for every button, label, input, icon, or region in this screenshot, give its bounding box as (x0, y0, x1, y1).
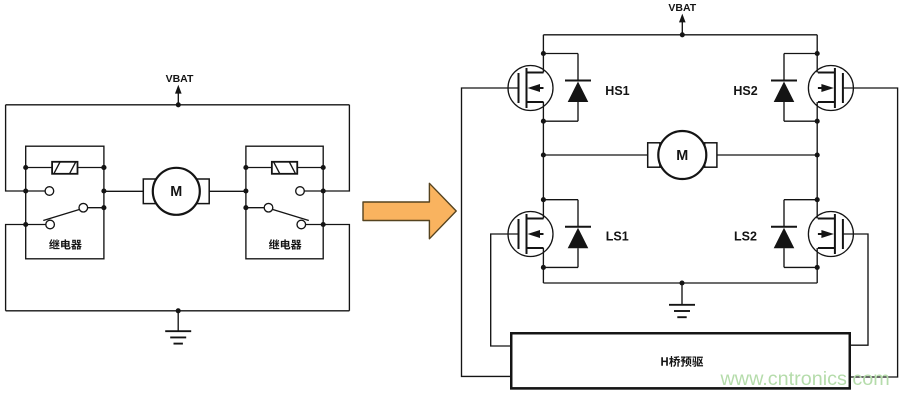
relay K1 NC contact circle (46, 220, 55, 229)
body diode of HS1 (543, 54, 591, 122)
svg-text:VBAT: VBAT (668, 2, 696, 14)
relay K1 common contact circle (79, 203, 88, 212)
svg-text:www.cntronics.com: www.cntronics.com (720, 368, 890, 390)
wire: left-circuit outer right, upper segment (323, 105, 349, 191)
relay K2 common contact stub wire (246, 207, 264, 209)
motor motor M (right circuit) body circle (658, 131, 706, 179)
N-MOSFET HS1 (508, 66, 553, 111)
relay K1 common contact stub wire (88, 207, 104, 209)
block arrow (relay-to-MOSFET transition) (363, 183, 456, 239)
wire: right-circuit top rail (VBAT net) (543, 34, 817, 36)
relay K2 NO contact circle (296, 187, 305, 196)
relay K1 NC contact stub wire (26, 224, 46, 226)
body diode of HS2 (771, 54, 817, 122)
junction dot relay K2 pin 1 (321, 188, 326, 193)
power flag VBAT arrow stem (left circuit) (177, 93, 179, 105)
pre-driver block (H桥预驱) box fill (511, 333, 850, 388)
ground symbol (left circuit) bar 3 (174, 343, 183, 345)
wire: left-circuit outer right, lower segment (323, 225, 349, 311)
body diode of LS1 (543, 200, 591, 268)
relay K2 label 继电器 (269, 239, 302, 249)
wire: motor M (left circuit) right lead (209, 190, 246, 192)
N-MOSFET LS1 (508, 212, 553, 257)
relay K1 label 继电器 (49, 239, 82, 249)
relay K2 coil wire right (297, 167, 323, 169)
relay K1 coil wire right (78, 167, 104, 169)
relay K2 NC contact stub wire (306, 224, 324, 226)
relay K2 switch arm (272, 209, 308, 220)
motor motor M (left circuit) right brush (196, 179, 209, 204)
wire: motor M (left circuit) left lead (104, 190, 143, 192)
junction dot motor-right rail node (815, 152, 820, 157)
ground symbol (right circuit) bar 1 (669, 304, 695, 306)
wire: left rail upper segment (VBAT to HS1 drain) (542, 35, 544, 73)
relay K2 coil hatch 2 (289, 162, 295, 174)
relay K2 enclosure box (246, 146, 323, 259)
relay K1 coil wire left (26, 167, 52, 169)
wire: left-circuit outer left, lower segment (6, 225, 26, 311)
wire: right rail lower segment (LS2 source to bottom) (816, 248, 818, 283)
power flag VBAT arrowhead (right circuit) (679, 14, 686, 23)
ground symbol (right circuit) stem (681, 283, 683, 305)
junction dot at right-circuit ground tap (679, 280, 684, 285)
power flag VBAT arrow stem (right circuit) (681, 22, 683, 35)
power flag VBAT arrowhead (left circuit) (175, 85, 182, 94)
junction dot motor-left rail node (541, 152, 546, 157)
wire: LS2 gate to pre-driver (843, 234, 868, 345)
wire: right rail middle segment (HS2 source to LS2 drain) (816, 102, 818, 219)
junction dot relay K1 pin 3 (101, 165, 106, 170)
junction dot HS2 source-diode node (815, 119, 820, 124)
relay K2 NO contact stub wire (304, 190, 323, 192)
ground symbol (left circuit) bar 2 (170, 336, 186, 338)
motor motor M (left circuit) body circle (153, 168, 200, 215)
svg-text:M: M (676, 148, 688, 164)
wire: HS2 gate to pre-driver (843, 88, 898, 377)
ground symbol (right circuit) bar 2 (674, 310, 690, 312)
relay K2 common contact circle (264, 203, 273, 212)
junction dot at left-circuit ground tap (176, 308, 181, 313)
svg-text:HS1: HS1 (605, 84, 629, 98)
junction dot at VBAT tap (right circuit) (680, 32, 685, 37)
relay K1 switch arm (43, 209, 79, 220)
junction dot LS1 source-diode node (541, 265, 546, 270)
svg-text:VBAT: VBAT (166, 73, 194, 85)
wire: left-circuit top rail (VBAT net) (6, 104, 350, 106)
relay K1 coil hatch 2 (70, 162, 76, 174)
wire: right-circuit bottom rail (ground net) (543, 282, 817, 284)
junction dot HS1 drain-diode node (541, 51, 546, 56)
junction dot relay K1 pin 5 (101, 205, 106, 210)
junction dot relay K1 coil left pin (23, 165, 28, 170)
relay K1 enclosure box (26, 146, 104, 259)
ground symbol (left circuit) stem (177, 311, 179, 331)
wire: motor M (right circuit) right lead (717, 154, 817, 156)
relay K2 NC contact circle (297, 220, 306, 229)
relay K2 coil hatch 1 (274, 162, 280, 174)
junction dot HS2 drain-diode node (815, 51, 820, 56)
ground symbol (right circuit) bar 3 (677, 316, 686, 318)
svg-text:M: M (170, 184, 182, 200)
wire: left-circuit bottom rail (ground net) (6, 310, 350, 312)
junction dot LS1 drain-diode node (541, 197, 546, 202)
junction dot relay K2 pin 3 (243, 188, 248, 193)
motor motor M (right circuit) left brush (648, 143, 660, 167)
relay K1 NO contact stub wire (26, 190, 45, 192)
wire: right rail upper segment (VBAT to HS2 drain) (816, 35, 818, 73)
svg-text:HS2: HS2 (733, 84, 757, 98)
svg-text:LS2: LS2 (734, 230, 757, 244)
relay K1 coil hatch 1 (54, 162, 60, 174)
junction dot HS1 source-diode node (541, 119, 546, 124)
junction dot relay K1 pin 4 (101, 188, 106, 193)
ground symbol (left circuit) bar 1 (165, 330, 191, 332)
relay K2 coil wire left (246, 167, 272, 169)
junction dot relay K1 coil right pin (101, 165, 106, 170)
wire: left rail middle segment (HS1 source to LS1 drain) (542, 102, 544, 219)
relay K1 NO contact circle (45, 187, 54, 196)
junction dot relay K2 pin 2 (321, 222, 326, 227)
junction dot relay K2 pin 4 (243, 205, 248, 210)
junction dot relay K2 coil left pin (243, 165, 248, 170)
wire: left rail lower segment (LS1 source to bottom) (542, 248, 544, 283)
wire: motor M (right circuit) left lead (543, 154, 647, 156)
junction dot at VBAT tap (left circuit) (176, 102, 181, 107)
junction dot LS2 source-diode node (815, 265, 820, 270)
junction dot relay K2 coil right pin (321, 165, 326, 170)
wire: left-circuit outer left, upper segment (6, 105, 26, 191)
relay K1 coil rectangle (52, 162, 77, 174)
motor motor M (right circuit) right brush (705, 143, 717, 167)
junction dot relay K1 pin 1 (23, 188, 28, 193)
relay K2 coil rectangle (272, 162, 297, 174)
motor motor M (left circuit) left brush (143, 179, 156, 204)
pre-driver block label H桥预驱 (661, 356, 703, 367)
junction dot LS2 drain-diode node (815, 197, 820, 202)
N-MOSFET LS2 (808, 212, 853, 257)
body diode of LS2 (771, 200, 817, 268)
N-MOSFET HS2 (808, 66, 853, 111)
pre-driver block box border restroke (511, 333, 850, 388)
wire: HS1 gate to pre-driver (462, 88, 519, 376)
junction dot relay K1 pin 2 (23, 222, 28, 227)
wire: LS1 gate to pre-driver (491, 234, 519, 346)
svg-text:LS1: LS1 (606, 230, 629, 244)
